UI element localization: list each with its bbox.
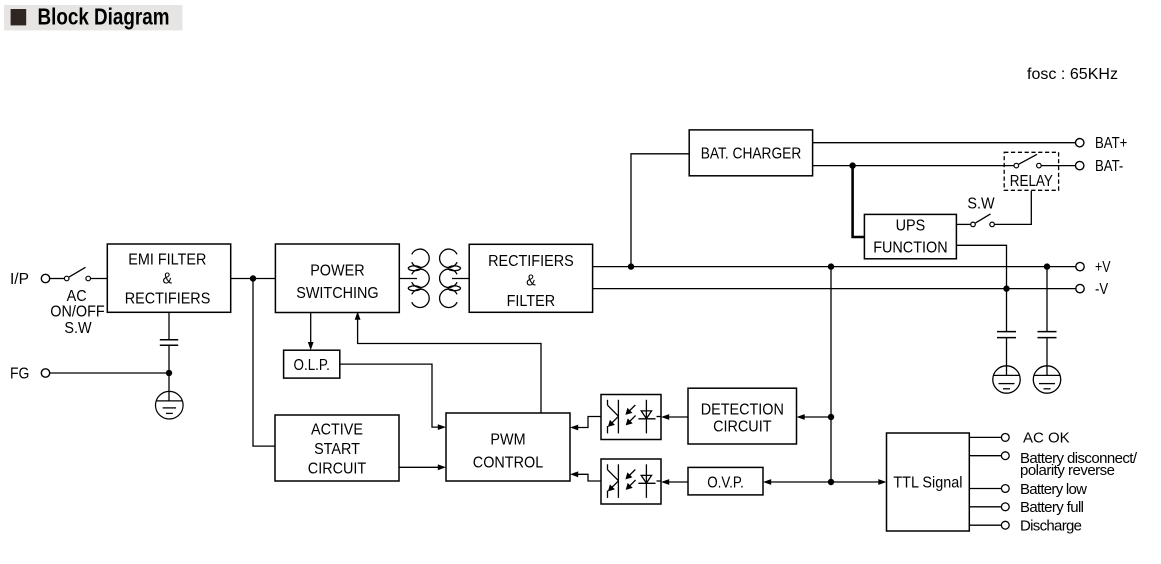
svg-text:AC OK: AC OK (1023, 430, 1070, 447)
svg-text:PWM: PWM (490, 431, 525, 449)
wire +V rail (593, 266, 1076, 268)
svg-text:O.L.P.: O.L.P. (294, 357, 330, 374)
svg-text:ON/OFF: ON/OFF (50, 303, 104, 321)
svg-text:SWITCHING: SWITCHING (296, 285, 378, 303)
TTL output Battery low (969, 481, 1087, 498)
block U8 PWM CONTROL (446, 413, 570, 481)
transformer T1 secondary (440, 249, 461, 307)
wire feedback PWM to POWER SWITCHING (355, 312, 541, 414)
svg-text:FUNCTION: FUNCTION (873, 239, 947, 257)
node B junction +V to BAT charger (628, 263, 634, 269)
wire BAT+ line (813, 142, 1076, 144)
node H junction detection (828, 414, 834, 420)
wire FG to junction (50, 372, 169, 374)
svg-text:I/P: I/P (10, 271, 29, 288)
optocoupler U12 (601, 395, 661, 440)
capacitor C1 (997, 332, 1016, 338)
svg-text:S.W: S.W (967, 195, 995, 213)
wire thick BAT- down to UPS FUNCTION (853, 166, 865, 237)
wire transformer to RECTIFIERS (452, 278, 469, 280)
svg-text:TTL Signal: TTL Signal (893, 474, 962, 492)
wire EMI bottom to capacitor C3 (168, 312, 170, 339)
block U2 POWER SWITCHING (275, 244, 399, 313)
ground GND2 earth (1033, 366, 1060, 393)
svg-text:RELAY: RELAY (1010, 173, 1053, 190)
svg-text:FILTER: FILTER (507, 292, 556, 310)
svg-text:Block Diagram: Block Diagram (38, 5, 170, 30)
ground GND3 earth (156, 373, 184, 419)
wire O.L.P. to PWM CONTROL (340, 364, 446, 430)
wire POWER SWITCHING down arrow to O.L.P. (308, 313, 314, 351)
svg-text:+V: +V (1095, 258, 1111, 276)
switch S2 S.W near UPS (956, 195, 995, 227)
wire C1 to ground (1006, 338, 1008, 366)
svg-text:ACTIVE: ACTIVE (311, 421, 363, 439)
wire UPS FUNCTION to -V rail (956, 245, 1006, 331)
wire O.V.P. to opto U13 (661, 479, 688, 485)
terminal +V (1076, 258, 1111, 276)
terminal -V (1076, 281, 1109, 298)
svg-text:&: & (526, 272, 536, 290)
wire ACTIVE START to PWM CONTROL (399, 464, 446, 470)
wire bus to DETECTION CIRCUIT (797, 414, 832, 420)
svg-text:FG: FG (10, 366, 29, 383)
svg-text:RECTIFIERS: RECTIFIERS (125, 290, 211, 308)
node E junction on +V (1044, 263, 1050, 269)
wire bus +V down to OVP line (830, 267, 832, 482)
block U5 UPS FUNCTION (864, 214, 956, 258)
title bar (4, 5, 183, 31)
TTL output Battery disconnect (969, 450, 1138, 479)
relay switch contacts (1014, 154, 1075, 168)
wire bus to O.V.P. (763, 479, 831, 485)
block U10 O.V.P. (688, 467, 763, 495)
terminal BAT- (1076, 158, 1124, 175)
svg-text:fosc : 65KHz: fosc : 65KHz (1027, 66, 1118, 83)
svg-text:&: & (162, 270, 172, 288)
svg-text:CIRCUIT: CIRCUIT (713, 418, 771, 436)
wire POWER to transformer (399, 278, 417, 280)
svg-text:-V: -V (1095, 281, 1109, 298)
node C junction on BAT- (849, 162, 855, 168)
switch S1 AC ON/OFF (50, 267, 107, 337)
wire opto U12 to PWM (570, 417, 601, 431)
wire +V up to BAT. CHARGER (631, 154, 689, 267)
wire DETECTION to opto U12 (661, 414, 688, 420)
block U1 EMI FILTER & RECTIFIERS (107, 244, 230, 312)
wire BAT- line to relay (813, 165, 1014, 167)
svg-text:polarity reverse: polarity reverse (1020, 462, 1115, 479)
block U9 DETECTION CIRCUIT (688, 388, 797, 444)
block U11 TTL Signal (887, 433, 970, 531)
svg-text:POWER: POWER (310, 262, 364, 280)
wire +V down to capacitor C2 (1046, 267, 1048, 332)
wire C3 to FG node (168, 345, 170, 373)
svg-text:START: START (314, 440, 360, 458)
block U3 RECTIFIERS & FILTER (469, 244, 592, 312)
node A junction after EMI (250, 275, 256, 281)
wire C2 to ground (1046, 338, 1048, 366)
svg-text:BAT. CHARGER: BAT. CHARGER (701, 145, 802, 163)
TTL output Battery full (969, 499, 1084, 516)
wire node A down to ACTIVE START (253, 279, 275, 447)
terminal BAT+ (1076, 135, 1128, 152)
svg-text:O.V.P.: O.V.P. (707, 474, 744, 491)
wire opto U13 to PWM (570, 471, 601, 481)
svg-text:Battery low: Battery low (1020, 481, 1087, 498)
node F FG junction (166, 370, 172, 376)
block U7 ACTIVE START CIRCUIT (275, 415, 399, 481)
wire EMI to POWER (231, 278, 276, 280)
svg-text:S.W: S.W (64, 319, 92, 337)
capacitor C3 (160, 340, 178, 346)
block U6 O.L.P. (284, 350, 340, 378)
svg-text:BAT+: BAT+ (1095, 135, 1127, 152)
svg-text:UPS: UPS (896, 217, 926, 235)
terminal I/P (10, 271, 50, 288)
transformer T1 primary (408, 249, 429, 307)
svg-text:RECTIFIERS: RECTIFIERS (488, 253, 574, 271)
TTL output Discharge (969, 518, 1082, 535)
node I junction ovp (828, 479, 834, 485)
optocoupler U13 (601, 459, 661, 504)
svg-text:EMI FILTER: EMI FILTER (128, 251, 206, 269)
svg-text:CIRCUIT: CIRCUIT (308, 460, 366, 478)
TTL output AC OK (969, 430, 1069, 447)
node G junction on +V bus (828, 263, 834, 269)
svg-text:Battery full: Battery full (1020, 499, 1084, 516)
relay K1 dashed box with switch (1004, 152, 1058, 190)
capacitor C2 (1038, 332, 1057, 338)
node D junction on -V (1003, 285, 1009, 291)
ground GND1 earth (993, 366, 1020, 393)
svg-text:BAT-: BAT- (1095, 158, 1123, 175)
wire S.W to RELAY (995, 191, 1032, 225)
terminal FG (10, 366, 50, 383)
wire -V rail (593, 288, 1076, 290)
wire bus to TTL Signal (831, 479, 887, 485)
block U4 BAT. CHARGER (689, 130, 812, 176)
svg-text:CONTROL: CONTROL (473, 454, 543, 472)
svg-text:Discharge: Discharge (1020, 518, 1082, 535)
svg-text:DETECTION: DETECTION (701, 401, 784, 419)
